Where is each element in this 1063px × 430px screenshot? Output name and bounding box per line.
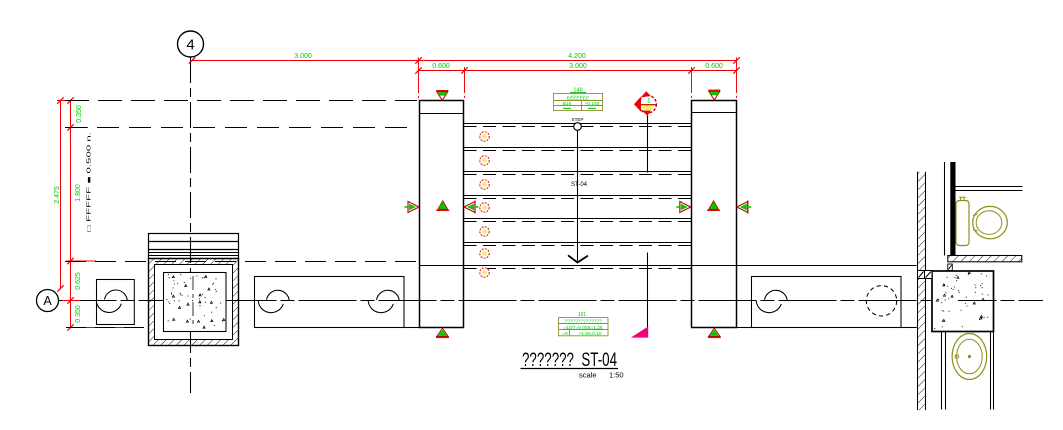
level marker right of right pier bbox=[737, 201, 752, 214]
landing edge solid line bbox=[420, 265, 917, 267]
hatched wall strip far right bbox=[918, 172, 926, 410]
benchmark top left pier bbox=[436, 91, 448, 101]
level table lower bbox=[559, 312, 609, 337]
svg-text:A: A bbox=[43, 294, 52, 308]
stair treads solid lines bbox=[464, 124, 692, 243]
stair direction arrow bbox=[568, 123, 588, 263]
svg-text:1:50: 1:50 bbox=[609, 371, 624, 380]
benchmark bottom right pier bbox=[708, 328, 721, 337]
wall segment right with sleeve + dashed circle bbox=[752, 277, 902, 328]
grid line 4 (vertical chain line) bbox=[190, 57, 192, 393]
svg-text:scale: scale bbox=[579, 371, 597, 380]
dimension chain 0.350/1.800/0.625/0.350 (left) bbox=[67, 97, 83, 330]
svg-text:□ FFFFF ■ 0.500 n.: □ FFFFF ■ 0.500 n. bbox=[87, 132, 93, 232]
left stair wall pier bbox=[420, 101, 464, 328]
column at grid 4/A (hatched) bbox=[149, 259, 239, 346]
grid line A (horizontal chain line) bbox=[59, 300, 1044, 302]
svg-text:2.475: 2.475 bbox=[54, 186, 61, 204]
grid bubble 4 bbox=[178, 31, 204, 57]
svg-text:STEP: STEP bbox=[572, 117, 584, 122]
grid bubble A bbox=[37, 290, 59, 312]
benchmark top right pier bbox=[708, 90, 720, 100]
svg-text:4.200: 4.200 bbox=[568, 53, 586, 60]
level table upper bbox=[554, 88, 603, 111]
dimension extension lines left bbox=[57, 101, 135, 328]
svg-text:0.600: 0.600 bbox=[432, 63, 450, 70]
upper floor edge dashed line 2 bbox=[65, 127, 417, 129]
svg-text:B16: B16 bbox=[563, 101, 572, 107]
svg-text:=9: =9 bbox=[562, 331, 568, 337]
concrete column lower right bbox=[932, 271, 994, 332]
benchmark bottom left pier bbox=[436, 328, 449, 337]
level marker inside left pier bbox=[436, 201, 449, 211]
svg-text:1.800: 1.800 bbox=[75, 184, 82, 202]
bathroom wall vertical (thick) bbox=[945, 162, 956, 256]
level marker right of left pier bbox=[464, 201, 479, 214]
svg-text:0.625: 0.625 bbox=[75, 272, 82, 290]
level marker left of left pier bbox=[405, 202, 420, 213]
wall segment mid with sleeve symbols bbox=[255, 277, 405, 328]
svg-text:3.000: 3.000 bbox=[294, 53, 312, 60]
dimension line 3.000 / 4.200 (top row) bbox=[189, 53, 740, 64]
svg-text:0.350: 0.350 bbox=[76, 105, 83, 123]
sink room walls bbox=[942, 332, 994, 410]
svg-text:EEEEEEE: EEEEEEE bbox=[567, 95, 589, 101]
dimension line 0.600 / 3.000 / 0.600 (second row) bbox=[415, 63, 739, 74]
baluster circles bbox=[480, 132, 489, 277]
right stair wall pier bbox=[692, 101, 737, 328]
svg-text:=10/7=0.056=1.25: =10/7=0.056=1.25 bbox=[563, 325, 602, 331]
svg-text:??????????????: ?????????????? bbox=[564, 319, 602, 325]
toilet bbox=[956, 197, 1007, 245]
svg-text:101: 101 bbox=[578, 312, 587, 318]
svg-text:+0.150: +0.150 bbox=[585, 101, 600, 107]
svg-text:+1.50,0.10: +1.50,0.10 bbox=[579, 331, 602, 337]
svg-text:4: 4 bbox=[186, 37, 194, 54]
bathroom lower wall hatched band bbox=[918, 256, 1022, 272]
dimension extension lines top bbox=[419, 58, 737, 99]
drawing title bbox=[521, 350, 624, 380]
lower dashed line far left bbox=[66, 327, 147, 329]
sink bbox=[952, 334, 987, 380]
svg-text:ST-04: ST-04 bbox=[571, 182, 588, 188]
junction squares strip/block bbox=[918, 271, 933, 279]
line to bathroom wall bbox=[901, 327, 917, 329]
stair treads dashed (nosing) lines bbox=[464, 127, 692, 269]
section arrow (magenta) bbox=[631, 327, 648, 338]
section marker 1 (diamond) bbox=[634, 91, 657, 116]
svg-text:0.600: 0.600 bbox=[705, 63, 723, 70]
level marker left of right pier bbox=[676, 202, 691, 213]
landing steps above column bbox=[149, 234, 239, 259]
lower floor edge dashed line (left) bbox=[65, 261, 417, 263]
upper floor edge dashed line 1 bbox=[65, 100, 417, 102]
column concrete core bbox=[164, 273, 227, 332]
dimension 2.475 (outer left) bbox=[54, 97, 64, 291]
level marker inside right pier bbox=[707, 201, 720, 211]
bathroom wall horizontal double line bbox=[956, 187, 1023, 191]
svg-text:3.000: 3.000 bbox=[569, 63, 587, 70]
connector line to pier bbox=[404, 327, 420, 329]
wall segment far left with sleeve symbol bbox=[96, 280, 134, 325]
grid A across concrete block bbox=[958, 300, 993, 302]
svg-text:0.350: 0.350 bbox=[75, 305, 82, 323]
section cut line bbox=[647, 116, 649, 332]
